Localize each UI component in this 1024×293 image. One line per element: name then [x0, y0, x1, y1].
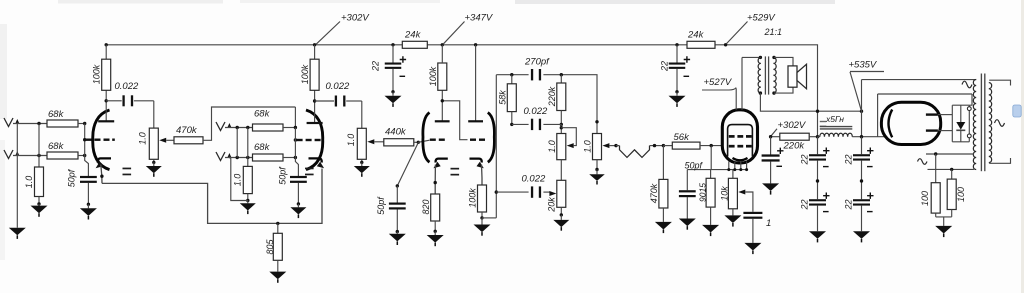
svg-text:22: 22 [659, 61, 669, 72]
svg-text:68k: 68k [48, 109, 65, 120]
svg-text:1.0: 1.0 [346, 134, 356, 147]
svg-text:20k: 20k [546, 197, 556, 213]
svg-text:220k: 220k [783, 141, 806, 152]
svg-text:+529V: +529V [747, 13, 776, 24]
svg-text:х5Гн: х5Гн [825, 114, 844, 124]
svg-text:440k: 440k [385, 127, 407, 138]
svg-text:22: 22 [843, 199, 853, 210]
svg-text:1.0: 1.0 [547, 140, 557, 153]
svg-text:100: 100 [920, 191, 930, 206]
svg-text:100k: 100k [300, 64, 310, 84]
svg-text:22: 22 [799, 154, 809, 165]
svg-text:1.0: 1.0 [582, 140, 592, 153]
svg-text:0.022: 0.022 [522, 174, 546, 185]
svg-text:1: 1 [766, 218, 771, 229]
svg-text:50pf: 50pf [685, 161, 704, 171]
svg-text:24k: 24k [404, 30, 422, 41]
svg-text:68k: 68k [48, 141, 65, 152]
svg-text:+347V: +347V [465, 13, 494, 24]
svg-text:+302V: +302V [778, 120, 807, 131]
svg-text:+535V: +535V [849, 60, 878, 71]
svg-text:270pf: 270pf [524, 57, 550, 68]
svg-text:21:1: 21:1 [764, 27, 783, 37]
svg-text:56k: 56k [674, 132, 691, 143]
svg-text:68k: 68k [254, 109, 271, 120]
svg-text:820: 820 [421, 199, 431, 214]
svg-text:+302V: +302V [341, 13, 370, 24]
svg-text:220k: 220k [547, 86, 557, 107]
svg-text:50pf: 50pf [277, 166, 287, 185]
svg-text:22: 22 [371, 61, 381, 72]
svg-text:24k: 24k [687, 30, 705, 41]
svg-text:+527V: +527V [704, 77, 733, 88]
svg-text:1.0: 1.0 [24, 176, 34, 189]
svg-text:0.022: 0.022 [524, 106, 548, 117]
svg-text:470k: 470k [176, 125, 198, 136]
svg-text:1.0: 1.0 [137, 132, 147, 145]
svg-text:9015: 9015 [697, 183, 707, 202]
svg-text:22: 22 [799, 199, 809, 210]
svg-text:805: 805 [265, 239, 275, 255]
svg-text:50pf: 50pf [67, 168, 77, 187]
svg-text:1.0: 1.0 [233, 174, 243, 187]
svg-text:10k: 10k [720, 186, 730, 201]
svg-text:470k: 470k [649, 183, 659, 203]
svg-text:100k: 100k [91, 64, 101, 84]
svg-text:0.022: 0.022 [326, 81, 350, 92]
svg-text:68k: 68k [254, 142, 271, 153]
svg-text:58k: 58k [497, 90, 507, 105]
svg-text:100k: 100k [468, 188, 478, 208]
svg-text:0.022: 0.022 [115, 81, 139, 92]
svg-text:100: 100 [956, 187, 966, 202]
svg-text:22: 22 [843, 154, 853, 165]
svg-text:50pf: 50pf [376, 196, 386, 215]
svg-text:100k: 100k [428, 66, 438, 86]
